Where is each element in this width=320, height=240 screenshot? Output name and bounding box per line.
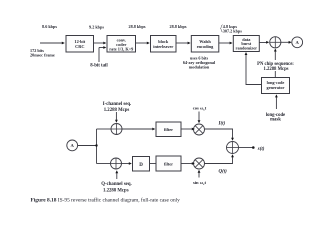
svg-text:rate 1/3, K=9: rate 1/3, K=9 [109,47,133,52]
svg-text:cos ωct: cos ωct [193,105,207,111]
svg-text:Q(t): Q(t) [219,170,228,175]
svg-text:20msec frame: 20msec frame [30,52,55,57]
svg-text:mask: mask [270,118,281,123]
svg-text:filter: filter [164,127,173,132]
svg-text:sin ωct: sin ωct [193,180,207,186]
svg-text:I(t): I(t) [218,122,226,127]
svg-text:modulation: modulation [189,65,210,70]
svg-text:generator: generator [267,85,285,90]
svg-text:interleaver: interleaver [153,44,173,49]
svg-text:I-channel seq.: I-channel seq. [103,102,132,107]
svg-text:28.8 kbps: 28.8 kbps [170,24,187,29]
svg-text:Figure 8.18 IS-95 reverse tra: Figure 8.18 IS-95 reverse traffic channe… [31,196,181,203]
svg-text:encoding: encoding [197,44,214,49]
svg-text:8-bit tail: 8-bit tail [90,63,108,68]
svg-text:CRC: CRC [75,44,84,49]
svg-text:307.2 kbps: 307.2 kbps [223,29,242,34]
svg-text:1.2288 Mcps: 1.2288 Mcps [103,189,129,194]
svg-text:s(t): s(t) [257,147,265,152]
svg-text:filter: filter [164,162,173,167]
svg-text:Q-channel seq.: Q-channel seq. [101,182,131,187]
svg-text:8.6 kbps: 8.6 kbps [42,24,57,29]
svg-text:9.2 kbps: 9.2 kbps [89,25,104,30]
svg-text:D: D [139,163,143,168]
svg-text:1.2288 Mcps: 1.2288 Mcps [104,108,130,113]
svg-text:randomizer: randomizer [236,46,258,51]
svg-text:1.2288 Mcps: 1.2288 Mcps [264,67,289,72]
svg-text:28.8 kbps: 28.8 kbps [129,24,146,29]
